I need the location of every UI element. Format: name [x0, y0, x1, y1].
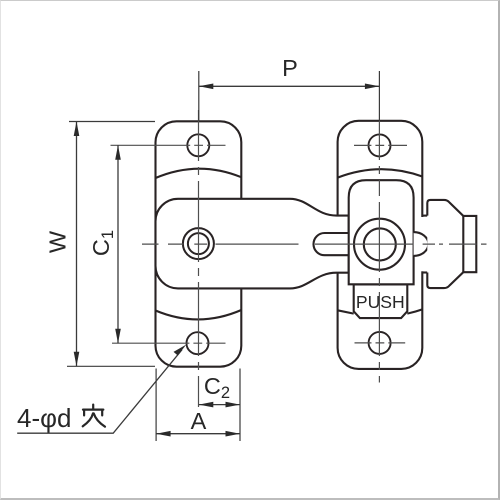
knob outline — [427, 200, 476, 288]
boss inner circle — [364, 228, 396, 260]
latch body block — [349, 180, 414, 284]
knob upper step — [422, 215, 427, 217]
A left extension line — [155, 369, 157, 442]
P dimension line — [199, 85, 380, 87]
leader line to bottom hole — [17, 350, 182, 434]
right mounting plate — [338, 121, 423, 369]
W dimension extension bottom — [67, 365, 155, 367]
right plate bottom bend arc right segment — [407, 309, 422, 313]
left plate bottom bend arc — [156, 310, 242, 319]
side bump half-round — [414, 232, 429, 256]
C1 dimension line — [117, 145, 119, 343]
W arrow top — [74, 122, 80, 137]
left plate top hole — [187, 134, 209, 156]
C2 dimension line — [199, 404, 240, 406]
W dimension extension top — [69, 121, 155, 123]
right bottom hole centerline — [355, 342, 406, 344]
C1 arrow bottom — [115, 329, 121, 344]
C2 arrow right — [226, 402, 241, 408]
push button box — [354, 285, 408, 319]
svg-text:PUSH: PUSH — [356, 292, 405, 312]
kanji ana (hole) glyph drawn as strokes — [83, 405, 105, 427]
leader arrowhead — [174, 345, 187, 356]
right plate vertical centerline — [378, 121, 380, 383]
right plate bottom hole — [369, 332, 391, 354]
left plate top bend arc — [156, 169, 242, 178]
center boss outer ring left — [183, 228, 214, 259]
C2 arrow left — [199, 402, 214, 408]
svg-text:C1: C1 — [88, 230, 117, 256]
C1 arrow top — [115, 145, 121, 160]
left plate bottom hole — [187, 332, 209, 354]
left top hole centerline — [111, 144, 226, 146]
left plate vertical centerline — [198, 110, 200, 407]
W dimension line — [76, 122, 78, 367]
right plate bottom bend arc left segment — [338, 310, 354, 313]
right top hole centerline — [354, 144, 407, 146]
right plate top bend arc — [338, 169, 423, 177]
svg-text:C2: C2 — [204, 373, 230, 402]
A arrow left — [156, 431, 171, 437]
knob tip boundary line — [462, 216, 464, 272]
latch tongue — [314, 233, 349, 255]
C2 right extension line — [239, 369, 241, 442]
center boss inner ring left — [188, 233, 209, 254]
svg-text:4-φd: 4-φd — [17, 403, 71, 433]
svg-text:A: A — [191, 408, 207, 434]
latch arm — [156, 199, 349, 289]
boss outer circle — [354, 219, 405, 270]
W arrow bottom — [74, 352, 80, 367]
svg-text:W: W — [45, 230, 71, 253]
P arrow right — [365, 84, 380, 90]
left bottom hole centerline — [112, 342, 226, 344]
main horizontal centerline — [142, 243, 487, 245]
P dimension extension right — [378, 71, 380, 121]
knob area patch hiding plate edge — [421, 217, 425, 271]
A arrow right — [226, 431, 241, 437]
svg-text:P: P — [282, 55, 298, 81]
left mounting plate — [156, 121, 242, 366]
P arrow left — [199, 84, 214, 90]
right plate top hole — [369, 134, 391, 156]
P dimension extension left — [198, 71, 200, 121]
A dimension line — [156, 433, 240, 435]
knob lower step — [422, 271, 427, 273]
